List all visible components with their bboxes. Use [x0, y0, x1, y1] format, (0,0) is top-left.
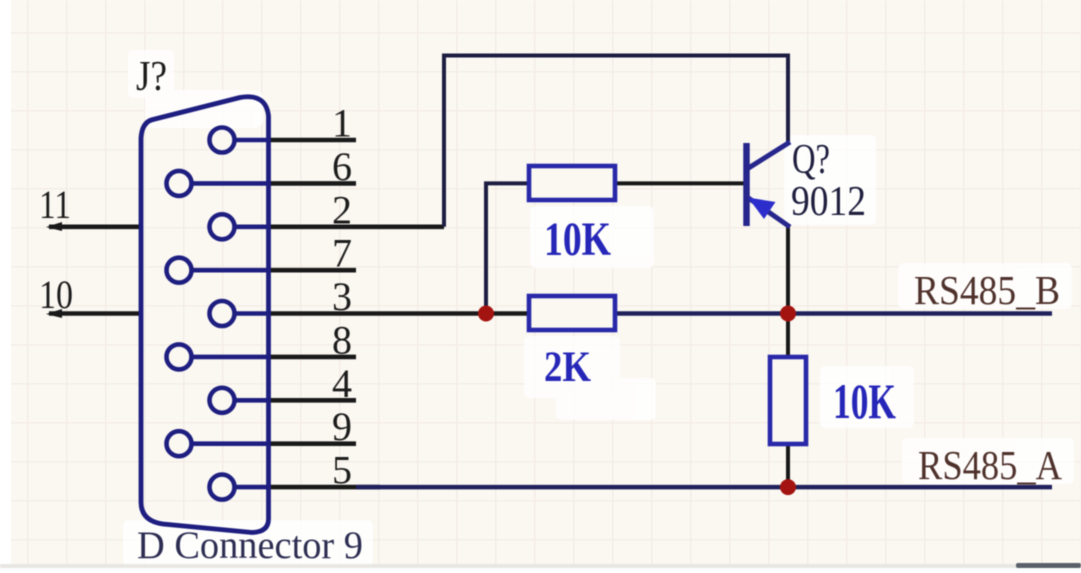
svg-text:10K: 10K	[833, 373, 896, 429]
svg-text:9012: 9012	[791, 179, 866, 225]
svg-text:RS485_B: RS485_B	[914, 267, 1060, 313]
svg-text:9: 9	[332, 404, 352, 449]
svg-text:Q?: Q?	[792, 137, 830, 183]
svg-text:8: 8	[332, 317, 352, 362]
svg-text:D Connector 9: D Connector 9	[137, 524, 363, 567]
svg-text:5: 5	[332, 448, 352, 493]
svg-text:1: 1	[332, 101, 352, 146]
svg-text:J?: J?	[136, 54, 167, 100]
svg-text:3: 3	[332, 274, 352, 319]
svg-text:2: 2	[332, 187, 352, 232]
svg-text:2K: 2K	[544, 344, 591, 391]
svg-text:4: 4	[332, 361, 352, 406]
svg-text:10: 10	[39, 272, 73, 317]
svg-text:RS485_A: RS485_A	[918, 442, 1062, 488]
svg-text:7: 7	[332, 231, 352, 276]
svg-text:10K: 10K	[544, 213, 611, 266]
svg-text:11: 11	[39, 182, 71, 227]
svg-text:6: 6	[332, 144, 352, 189]
